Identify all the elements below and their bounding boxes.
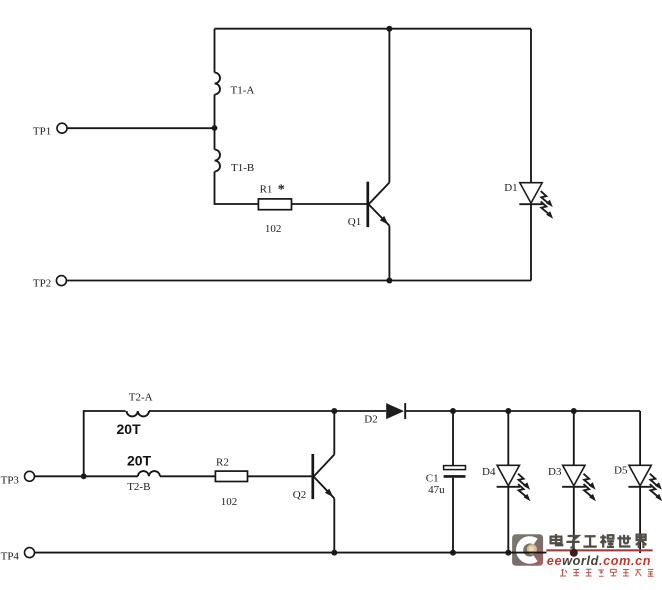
- wire top rail of T1 circuit: [215, 28, 532, 30]
- node D3 bottom junction (over watermark): [570, 549, 578, 557]
- inductor T1-B: [215, 150, 221, 172]
- logo glyph dian: [551, 534, 563, 545]
- wire T2-B to R2: [160, 475, 216, 477]
- svg-text:D1: D1: [504, 182, 517, 194]
- node Q2 emitter / bottom rail: [331, 550, 337, 556]
- LED D5: [628, 465, 662, 501]
- LED D1: [519, 183, 553, 219]
- svg-text:T2-B: T2-B: [127, 481, 150, 493]
- node D4 top: [505, 408, 511, 414]
- wire top rail corner down to D5: [639, 411, 641, 465]
- svg-text:T1-A: T1-A: [231, 84, 255, 96]
- wire T2-A to D2: [149, 410, 386, 412]
- node C1 bottom: [450, 550, 456, 556]
- node T2 center tap: [81, 473, 87, 479]
- wire D5 cathode down: [639, 487, 641, 553]
- logo glyph zi: [566, 536, 579, 548]
- logo glyph gong: [583, 536, 596, 546]
- wire TP4 bottom rail: [35, 552, 547, 554]
- node center tap TP1/T1: [212, 125, 218, 131]
- resistor R1: [258, 199, 291, 210]
- node Q2 collector / top rail: [331, 408, 337, 414]
- svg-text:47u: 47u: [428, 484, 445, 496]
- wire D1 cathode to bottom rail: [530, 204, 532, 280]
- wire D3 anode drop: [573, 411, 575, 465]
- wire TP2 rail: [66, 280, 531, 282]
- wire D2 cathode along top rail to corner: [405, 410, 640, 412]
- svg-text:*: *: [278, 183, 285, 198]
- wire T1-A to center tap: [214, 95, 216, 129]
- terminal TP1: [57, 123, 67, 133]
- wire T2-B from tap: [84, 475, 138, 477]
- logo glyph cheng: [600, 535, 614, 548]
- inductor T2-A: [127, 411, 149, 416]
- svg-text:T2-A: T2-A: [129, 391, 153, 403]
- svg-text:Q1: Q1: [348, 216, 361, 228]
- capacitor C1: [444, 411, 466, 553]
- wire D4 cathode to bottom rail: [507, 487, 509, 553]
- svg-text:D3: D3: [548, 466, 562, 478]
- svg-text:TP2: TP2: [33, 278, 51, 290]
- eeworld logo slogan marks: [560, 569, 654, 576]
- wire Q1 emitter to bottom rail: [388, 226, 390, 281]
- terminal TP2: [56, 276, 66, 286]
- svg-text:T1-B: T1-B: [231, 162, 254, 174]
- inductor T1-A: [215, 73, 221, 95]
- svg-text:C1: C1: [426, 473, 439, 485]
- wire tap riser to T2-A: [84, 411, 126, 476]
- resistor R2: [215, 471, 247, 481]
- eeworld logo chinese title: [551, 534, 647, 548]
- node C1 top: [450, 408, 456, 414]
- wire TP3 to tap: [35, 475, 84, 477]
- diode D2: [386, 403, 405, 419]
- wire T1 upper vertical: [214, 29, 216, 73]
- svg-text:R2: R2: [216, 456, 229, 468]
- svg-text:102: 102: [265, 223, 282, 235]
- svg-text:TP4: TP4: [1, 551, 20, 563]
- svg-text:TP3: TP3: [1, 474, 20, 486]
- terminal TP3: [25, 471, 35, 481]
- node D4 bottom: [505, 550, 511, 556]
- wire Q2 collector to top rail: [333, 411, 335, 455]
- svg-text:20T: 20T: [117, 421, 142, 437]
- inductor T2-B: [138, 471, 160, 476]
- transistor Q2: [313, 454, 335, 499]
- node D3 top: [571, 408, 577, 414]
- wire Q1 collector to top rail: [388, 29, 390, 183]
- svg-text:20T: 20T: [127, 452, 152, 468]
- wire D1 anode drop: [530, 29, 532, 183]
- terminal TP4: [25, 548, 35, 558]
- wire D3 cathode to bottom rail: [573, 487, 575, 553]
- node top rail / Q1 collector junction: [386, 26, 392, 32]
- transistor Q1: [368, 182, 390, 227]
- eeworld logo icon: [512, 534, 543, 565]
- LED D4: [497, 465, 531, 501]
- svg-text:Q2: Q2: [293, 489, 306, 501]
- eeworld logo red underline: [546, 549, 652, 551]
- wire T1-B to R1: [215, 172, 259, 205]
- svg-text:eeworld.com.cn: eeworld.com.cn: [547, 554, 651, 568]
- wire TP1 to center tap: [67, 127, 215, 129]
- node Q1 emitter / TP2 rail: [386, 278, 392, 284]
- wire Q2 emitter to bottom rail: [333, 498, 335, 552]
- svg-text:D5: D5: [614, 465, 628, 477]
- svg-text:D4: D4: [482, 466, 496, 478]
- wire R2 to Q2 base: [248, 475, 312, 477]
- svg-text:R1: R1: [260, 183, 273, 195]
- wire R1 to Q1 base: [292, 203, 367, 205]
- svg-text:D2: D2: [364, 414, 377, 426]
- LED D3: [562, 465, 596, 501]
- wire D4 anode drop: [507, 411, 509, 465]
- svg-text:102: 102: [221, 496, 238, 508]
- logo glyph shi: [617, 535, 631, 547]
- svg-text:TP1: TP1: [33, 126, 51, 138]
- wire center tap to T1-B: [214, 128, 216, 150]
- logo glyph jie: [636, 535, 646, 548]
